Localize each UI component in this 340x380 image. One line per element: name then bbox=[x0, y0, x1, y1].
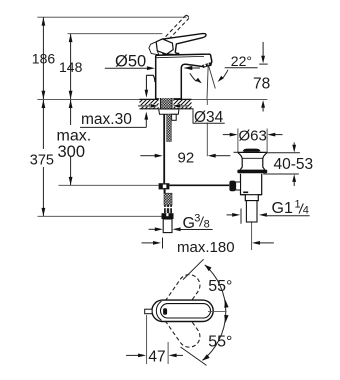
dimension 375 bbox=[26, 100, 57, 217]
extension line (148 level) bbox=[68, 33, 163, 35]
svg-text:3: 3 bbox=[194, 213, 200, 225]
handle cap (raised position outline) bbox=[149, 42, 159, 55]
faucet body bbox=[156, 54, 212, 99]
bottom extension line (375 level) bbox=[38, 215, 163, 217]
label D34 with box bbox=[192, 105, 225, 126]
braided hose bbox=[164, 193, 172, 213]
svg-text:22°: 22° bbox=[231, 53, 252, 69]
pop-up waste seal band bbox=[237, 170, 267, 174]
svg-text:8: 8 bbox=[204, 219, 210, 231]
aerator arrow bbox=[184, 66, 200, 70]
G3/8 connector pipe bbox=[163, 219, 172, 233]
dimension 148 bbox=[59, 34, 83, 100]
top view 55deg line lower bbox=[181, 347, 207, 365]
pop-up waste flange bbox=[238, 152, 268, 169]
svg-text:92: 92 bbox=[178, 149, 195, 166]
flange level stub line bbox=[234, 151, 238, 153]
dimension 47 bbox=[126, 315, 183, 366]
D63 extension lines bbox=[238, 129, 267, 153]
hose nut bbox=[162, 213, 174, 219]
dimension G3/8 bbox=[149, 213, 213, 233]
svg-text:max.30: max.30 bbox=[81, 111, 132, 128]
22 degree slant line bbox=[208, 65, 215, 89]
svg-text:300: 300 bbox=[58, 143, 86, 161]
dimension D63 bbox=[223, 127, 283, 144]
dashed lever (raised position) bbox=[161, 15, 189, 44]
label max.30 bbox=[80, 111, 148, 128]
small nut on stud bbox=[172, 114, 177, 120]
top view centerline bbox=[208, 311, 227, 313]
dimension 186 bbox=[32, 17, 56, 99]
aerator vertical extension line bbox=[206, 99, 208, 156]
svg-text:max.: max. bbox=[57, 128, 92, 145]
top view dashed swivel positions bbox=[161, 275, 200, 348]
pop-up waste plug bbox=[243, 149, 261, 152]
dimension 92 bbox=[140, 149, 230, 166]
extension line top (186 level) bbox=[37, 16, 186, 18]
dimension max.300 bbox=[53, 100, 91, 186]
mounting deck right block bbox=[172, 99, 191, 108]
pull rod arrow bbox=[145, 90, 149, 98]
svg-text:55°: 55° bbox=[208, 278, 232, 295]
flow angle arc right bbox=[218, 70, 228, 82]
threaded shank in deck bbox=[159, 98, 174, 109]
svg-text:G1: G1 bbox=[272, 200, 293, 217]
pop-up outlet pipe bbox=[246, 201, 257, 222]
svg-text:max.180: max.180 bbox=[177, 239, 235, 256]
rod level extension line left bbox=[59, 184, 159, 186]
deck top extension line right bbox=[192, 99, 268, 101]
linkage tee bbox=[159, 183, 170, 193]
svg-text:78: 78 bbox=[253, 75, 270, 92]
svg-text:Ø63: Ø63 bbox=[239, 127, 267, 144]
svg-text:40-53: 40-53 bbox=[274, 156, 314, 173]
threaded stud bbox=[167, 114, 172, 141]
svg-text:4: 4 bbox=[303, 205, 309, 217]
label D50 with leader bbox=[105, 53, 155, 71]
svg-text:Ø34: Ø34 bbox=[194, 109, 224, 126]
flow angle arc left bbox=[190, 73, 202, 83]
pop-up waste centerline extension bbox=[251, 222, 253, 251]
svg-text:47: 47 bbox=[148, 349, 165, 366]
top view handle capsule bbox=[152, 300, 213, 321]
dimension 78 bbox=[253, 42, 270, 112]
vertical flow reference line bbox=[207, 65, 208, 99]
svg-text:148: 148 bbox=[59, 59, 83, 75]
svg-text:1: 1 bbox=[295, 199, 301, 211]
label 55deg lower bbox=[208, 333, 232, 350]
svg-text:375: 375 bbox=[30, 152, 54, 168]
handle cap pentagon bbox=[156, 39, 173, 54]
D34 hole arrows bbox=[138, 104, 188, 108]
pull rod knob bbox=[146, 75, 155, 90]
dimension max.180 bbox=[142, 238, 274, 257]
label 55deg upper bbox=[208, 278, 232, 295]
pop-up waste lower body bbox=[241, 174, 262, 201]
svg-text:G: G bbox=[183, 215, 195, 232]
horizontal pop-up rod bbox=[169, 184, 229, 186]
swivel arc bbox=[202, 265, 228, 361]
aerator bbox=[203, 63, 211, 66]
top view 55deg line upper bbox=[183, 259, 204, 279]
svg-text:186: 186 bbox=[32, 51, 56, 67]
pull rod below deck bbox=[163, 115, 165, 184]
mounting deck left block bbox=[140, 99, 159, 108]
handle lever (solid) bbox=[162, 34, 206, 55]
label 22deg bbox=[225, 53, 258, 69]
svg-text:55°: 55° bbox=[208, 333, 232, 350]
dimension 40-53 bbox=[263, 142, 313, 186]
top view pull rod nub bbox=[145, 309, 152, 314]
pop-up rod knob bbox=[229, 181, 240, 192]
washer below deck bbox=[159, 109, 179, 114]
deck top extension line left bbox=[37, 98, 139, 100]
label G1 1/4 bbox=[227, 199, 310, 224]
